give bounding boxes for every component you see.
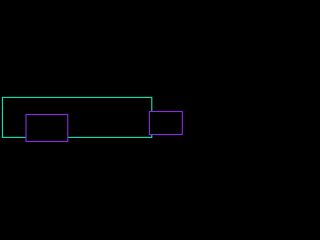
green container box [2,97,151,137]
purple box 1 (bottom-left) [26,115,68,142]
purple box 2 (right) [149,112,182,135]
